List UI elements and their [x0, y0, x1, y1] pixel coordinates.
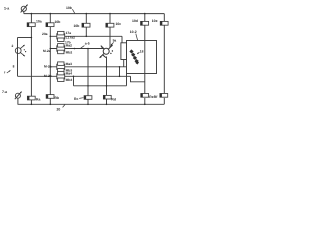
svg-text:17a: 17a	[66, 31, 72, 35]
svg-text:f: f	[4, 70, 5, 74]
terminal T1 stem	[23, 11, 25, 13]
svg-text:1-a: 1-a	[4, 7, 10, 11]
transistor Q1 (left)	[15, 45, 26, 56]
capacitor C10 (bottom x107)	[103, 95, 116, 101]
svg-text:10d: 10d	[132, 19, 138, 23]
terminal T1	[21, 5, 28, 13]
svg-text:10b: 10b	[55, 20, 61, 24]
label a5 above wire B	[81, 42, 90, 49]
wire vertical V7	[85, 14, 87, 37]
svg-text:20: 20	[57, 107, 61, 111]
capacitor C6 (top drop x164)	[152, 19, 168, 25]
resistor tall box R9	[121, 43, 127, 60]
svg-text:Mb4: Mb4	[66, 78, 73, 82]
svg-text:Rd: Rd	[111, 98, 116, 102]
capacitor C7 (bottom x31)	[27, 96, 40, 101]
svg-text:Ma2: Ma2	[66, 44, 73, 48]
label 20 below bottom rail	[57, 105, 66, 112]
wire B	[50, 48, 103, 50]
svg-text:10a: 10a	[36, 20, 42, 24]
transistor Q2 (middle)	[100, 45, 114, 58]
wire E	[74, 85, 127, 87]
capacitor C12 (bottom x164)	[154, 94, 168, 100]
wire A	[50, 35, 122, 37]
svg-text:Rc: Rc	[74, 97, 78, 101]
svg-text:Ra: Ra	[36, 97, 40, 101]
svg-text:10e: 10e	[152, 19, 158, 23]
svg-text:Rb: Rb	[55, 96, 60, 100]
wire right vertical V13	[163, 14, 165, 105]
capacitor C11 (bottom x145)	[141, 94, 154, 100]
wire D	[18, 75, 131, 77]
capacitor C1 (top drop x31)	[27, 20, 42, 27]
trap group G4 on wire D	[57, 71, 65, 81]
wire C	[50, 66, 126, 68]
wire C-D connector	[119, 67, 121, 77]
capacitor C8 (bottom x50)	[46, 95, 59, 100]
wire vertical V9	[109, 14, 111, 48]
label f with arrow near V3	[4, 70, 10, 74]
label 18 with arrow	[137, 50, 143, 54]
svg-text:10b: 10b	[66, 6, 72, 10]
wire top rail	[24, 13, 165, 15]
svg-text:18: 18	[140, 50, 144, 54]
svg-text:L17a2: L17a2	[66, 36, 76, 40]
capacitor C2 (top drop x50)	[46, 20, 60, 27]
label 9a with arrow	[111, 39, 117, 46]
svg-text:2: 2	[12, 44, 14, 48]
wire H2 left tap	[18, 37, 32, 39]
junction dots	[31, 13, 146, 105]
wire box corner to E	[126, 74, 128, 86]
wire stub D to V11	[131, 76, 145, 82]
svg-text:M-2a: M-2a	[43, 49, 51, 53]
wire A to tallbox top	[121, 36, 123, 43]
trap group G1 on wire A	[57, 31, 65, 41]
svg-text:10-2: 10-2	[130, 30, 137, 34]
diode stack D1	[129, 49, 139, 64]
capacitor C9 (bottom x87)	[74, 96, 92, 101]
wire bottom rail	[18, 103, 165, 105]
wire D-E connector	[73, 76, 75, 86]
svg-text:10b: 10b	[74, 24, 80, 28]
wire vertical V3	[17, 38, 19, 77]
wire drop b4	[106, 57, 108, 105]
svg-text:Ma4: Ma4	[66, 71, 73, 75]
label 10x with leader	[66, 6, 75, 14]
wire tallbox bottom to C	[123, 60, 125, 67]
terminal T2	[15, 92, 22, 100]
wire vertical V11	[144, 14, 146, 105]
wire vertical V2	[30, 14, 32, 105]
svg-text:Ma3: Ma3	[66, 62, 73, 66]
capacitor C4 (top drop x110)	[106, 22, 121, 27]
terminal T2 stem	[17, 98, 19, 104]
block U1 outline	[127, 41, 157, 74]
wire vertical V4	[49, 14, 51, 105]
capacitor C5 (top drop x145)	[132, 19, 149, 25]
svg-text:7-a: 7-a	[2, 90, 7, 94]
svg-text:Rf: Rf	[154, 95, 158, 99]
trap group G2 on wire B	[57, 44, 65, 54]
wire vertical V8	[87, 49, 89, 105]
svg-text:9a: 9a	[113, 39, 117, 43]
label 10-2 with leader	[130, 30, 138, 40]
capacitor C3 (top drop x86)	[74, 23, 91, 28]
svg-text:Mb2: Mb2	[66, 50, 73, 54]
svg-text:8: 8	[13, 64, 15, 68]
svg-text:20a: 20a	[42, 32, 48, 36]
svg-text:10c: 10c	[116, 22, 122, 26]
svg-text:a-5: a-5	[85, 42, 90, 46]
trap group G3 on wire C	[57, 62, 65, 72]
